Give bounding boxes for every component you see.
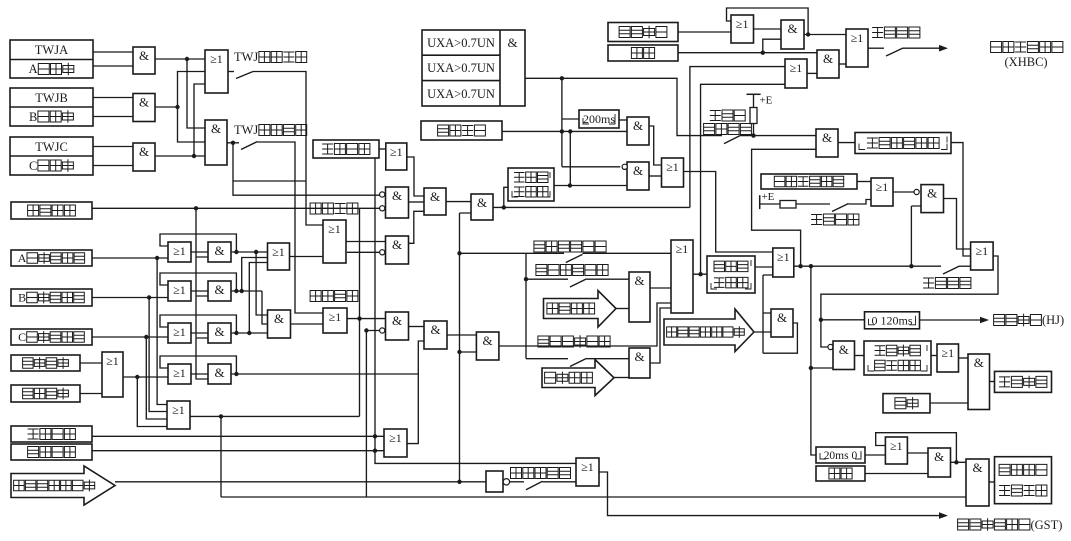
svg-text:≥1: ≥1 [666,160,679,174]
label +E side [762,191,775,203]
svg-text:&: & [214,365,224,380]
mode box 单重方式 [313,140,379,158]
label TWJ起动三重 [234,123,307,137]
svg-text:&: & [777,310,787,325]
svg-text:&: & [214,324,224,339]
svg-text:≥1: ≥1 [876,180,889,194]
delay box 后合延时定值 [855,133,951,154]
wire 单重方式 to G10 [379,148,386,150]
delay box 后合跳闸时间定值 [864,341,931,375]
label 投检同期方式 [538,335,610,347]
label 线路有压 [704,124,752,135]
wire G29 out to G28 [839,63,846,65]
svg-text:UXA>0.7UN: UXA>0.7UN [427,61,495,75]
label 后合固定 label [811,214,859,225]
wire G16 out to G18 [447,334,476,336]
wire 保护起动 to bubble2 [360,208,380,416]
or-gate G24 [662,158,684,187]
wire 无压 to G19 [587,278,630,280]
wire G37 out to G38 [959,357,969,359]
input box A相跳闸开入 [11,250,92,266]
svg-text:≥1: ≥1 [328,222,341,236]
svg-text:≥1: ≥1 [106,354,119,368]
wire G31 out [893,191,914,193]
junction J10 [234,250,238,254]
and-gate G18 三重与2 [476,332,499,360]
junction J25 [457,251,461,255]
wire G5-branch to NAND bubble1 [233,143,380,195]
switch SW-后合固定 [832,204,849,212]
svg-text:A: A [29,62,38,76]
switch SW-TWJ三重 [241,142,258,150]
junction J8 [135,375,139,379]
wire G25 feedback [727,8,809,35]
wire row1 out to G6/G7 [231,252,268,315]
wire G17cc out up to G16 [407,341,424,444]
or-gate R5 (any trip) [167,401,190,429]
or-gate G6 单相起动 [268,243,290,270]
wire checkmode vert [525,253,527,358]
wire G10 out to G13 top [407,157,424,196]
svg-text:≥1: ≥1 [676,242,689,256]
svg-text:≥1: ≥1 [851,31,864,45]
output arrowhead XHBC [939,45,948,52]
input box B相跳闸开入 [11,289,92,306]
wire G34 latch lower in [763,275,773,353]
input box TWJA / A相无流 [10,40,93,78]
delay box 20ms-0 [816,447,865,463]
label 未充电沟三 label [511,468,571,479]
not-gate N8 未充电 [486,471,503,492]
and-gate G22 电压200ms [627,117,649,145]
wire 200ms to G22 [619,119,627,121]
nand-gate G23 单重时间与 [627,162,649,190]
output arrowhead GST [939,512,948,519]
svg-text:&: & [507,35,517,50]
switch SW-先合投入(out) [886,48,903,56]
wire 合闸命令 to G25 [678,31,731,33]
junction J33 [806,32,810,36]
wire latch loop row 3 [160,315,236,333]
or-gate R0 (三跳) [102,352,123,397]
svg-text:C: C [18,330,26,344]
junction J9 [194,206,198,210]
and-gate G2 (TWJB) [133,94,155,122]
svg-text:≥1: ≥1 [390,145,403,159]
wire NOT out to switch [510,481,524,483]
wire G1 out to G4/G5 [155,59,205,128]
or-gate G27 合闸动作 [785,59,807,88]
wire 不检 to OR671 [583,252,672,254]
junction J35 [798,264,802,268]
or-gate R2 (B) [168,281,191,301]
wire mode vertical v375 [375,158,576,463]
inverter bubble N6 [914,189,919,194]
svg-text:B: B [29,110,37,124]
nand-gate G11 (blocking) [386,187,409,218]
delay box 单重时间定值 [508,168,554,201]
wire 未充电 to G42 [543,481,577,483]
wire 三重方式 line [92,450,384,452]
wire G3 out to G5/G4 [155,84,205,156]
and-gate S3 (C) [208,323,231,343]
and-gate G3 (TWJC) [133,143,155,171]
svg-text:&: & [139,144,149,159]
svg-text:TWJA: TWJA [35,43,68,57]
wire row4 out across [231,373,418,375]
or-gate G21 重合闸动作 [671,240,693,313]
junction J34 [751,133,755,137]
nand-gate G12 单重合闸 [386,236,409,264]
svg-text:≥1: ≥1 [581,460,594,474]
svg-text:+E: +E [762,191,775,203]
wire TWJ三重 switch to OR(323b) [258,142,324,313]
switch SW-TWJ单重 [236,72,253,79]
wire R4 to S4 [191,373,208,375]
junction J29 [560,129,564,133]
svg-text:≥1: ≥1 [777,250,790,264]
signal arrow 重合闸充电完成 input [11,466,115,505]
svg-text:&: & [274,311,284,326]
or-gate G33 先合投入 [971,242,994,270]
wire HJ out line [920,319,986,321]
svg-text:≥1: ≥1 [173,244,186,258]
wire G11 out to G13 [409,201,425,203]
wire G23 out to G24 [649,175,662,177]
wire 同期满足 to G20 [614,377,629,379]
junction J27 [698,272,702,276]
label 先合投入 top label [872,27,920,38]
svg-text:(XHBC): (XHBC) [1005,55,1048,69]
junction J24 [373,449,377,453]
wire G21 out [693,84,785,274]
inverter bubble N2 [380,206,385,211]
junction J39 [809,366,813,370]
wire 同期 to G20 [587,358,630,360]
wire 不检 line [460,252,565,254]
wire charge to G18 lower [460,351,477,353]
wire G9 out to G15 [347,318,386,320]
or-gate R4 (T) [168,364,191,384]
or-gate G8 起动单重 [323,220,346,263]
wire G5 out to switch [227,142,239,144]
wire XHBC out line [903,47,940,49]
wire R3 to S3 [191,332,208,334]
junction J36 [809,264,813,268]
svg-text:&: & [927,186,937,201]
and-gate G14 单重与2 [471,194,493,220]
or-gate G31 [871,178,893,206]
wire G20 out to OR671 [650,308,671,363]
wire row2 out to G6/G7 [231,258,268,325]
junction J32 [761,51,765,55]
and-gate G5 TWJ起动三重 [205,120,227,165]
wire G13 out to G14 [446,201,471,203]
wire 无压满足 to G19 [616,308,629,310]
wire G15 out to G16 [409,326,425,328]
junction J3 [192,154,196,158]
wire 综重方式 line [92,435,384,437]
svg-text:&: & [934,449,944,464]
or-gate G10 单重方式 [386,143,407,170]
input box 发电厂侧 [421,121,502,140]
wire branch to 0120ms [821,319,865,321]
or-gate G4 TWJ起动单重 [205,50,228,93]
wire 保护起动 line [92,208,360,379]
svg-text:UXA>0.7UN: UXA>0.7UN [427,36,495,50]
or-gate G39 [885,437,907,464]
junction J13 [240,289,244,293]
wire G7 to G9 [291,323,324,325]
junction J38 [819,318,823,322]
input box C相跳闸开入 [11,329,92,345]
svg-text:&: & [974,355,984,370]
wire 先合投入 to G33 [960,265,971,267]
svg-text:C: C [29,159,37,173]
wire G40 latch loop [876,433,957,463]
delay box 0-120ms [865,312,920,329]
svg-text:≥1: ≥1 [790,61,803,75]
input box TWJB / B相无流 [10,88,93,126]
wire 同期 line [526,358,568,360]
svg-text:&: & [787,21,797,36]
output box 后合跳闸 [995,371,1052,392]
junction J20 [364,328,368,332]
wire G18 out to OR671 [499,303,671,346]
signal arrow 无压满足 arrow [544,291,617,328]
wire G34 out 先合投入 line [794,265,941,267]
junction J12 [234,289,238,293]
input box 有流 [883,394,930,413]
label 重合闸充电完成 mid text [667,326,745,337]
input box 综重方式 [11,426,92,442]
wire G42 out GST line [599,472,940,516]
junction J30 [568,129,572,133]
wire UXA out line [525,78,722,135]
svg-text:200ms: 200ms [583,112,615,126]
and-gate G16 三重与 [424,321,447,349]
or-gate G28 先合闭锁 [846,29,868,67]
wire 有流 to G38 [930,402,968,404]
label 闭锁先合输出 [991,42,1063,53]
svg-text:≥1: ≥1 [173,283,186,297]
svg-text:TWJ: TWJ [234,123,258,137]
wire latch loop row 1 [160,234,236,252]
svg-text:UXA>0.7UN: UXA>0.7UN [427,87,495,101]
label 重合闸充电完成 text [14,480,95,492]
and-gate G20 同期 [629,348,650,378]
wire 单重方式 latch vert seg [374,436,376,450]
wire R2 to S2 [191,290,208,292]
junction J1 [185,57,189,61]
svg-text:&: & [214,243,224,258]
wire G14 out main [493,67,785,208]
junction J16 [234,372,238,376]
svg-text:TWJ: TWJ [234,50,258,64]
or-gate G34 重合出口 [773,248,794,277]
svg-text:A: A [18,251,27,265]
switch SW-先合投入 [943,266,960,274]
wire G26 out to G28 [804,34,846,36]
wire G8 tap to bubble3 [347,251,380,253]
inverter bubble N3 [380,250,385,255]
svg-text:TWJC: TWJC [35,140,68,154]
svg-text:&: & [430,189,440,204]
wire charge to G14 lower [460,213,472,482]
switch SW-不检 [566,254,583,262]
wire G39 out to G40 [907,452,928,454]
svg-text:≥1: ≥1 [329,310,342,324]
junction J6 [147,295,151,299]
input box 合闸命令 [608,23,678,42]
wire G25 out to G26 [754,28,782,30]
and-gate G26 [781,20,804,49]
inverter bubble N9 [503,479,509,485]
junction J4 [231,141,235,145]
wire charge line to NOT [115,481,486,483]
junction J31 [568,183,572,187]
junction J37 [909,264,913,268]
voltage check block UXA>0.7UN [422,30,525,106]
svg-text:B: B [18,291,26,305]
switch SW-同期 [570,358,587,366]
wire G28 out to switch [868,47,884,49]
wire G27 out to G29 [807,72,817,74]
wire row3 out to G7/G6 [231,263,268,334]
wire G12 out up to G13 [409,211,425,243]
svg-text:(HJ): (HJ) [1042,313,1064,327]
svg-text:&: & [392,313,402,328]
svg-text:0 120ms: 0 120ms [872,313,913,327]
and-gate G30 后合有压 [816,129,838,157]
svg-text:&: & [392,188,402,203]
and-gate S2 (B) [208,281,231,301]
label 沟三接点输出(GST) [958,518,1063,532]
switch SW-无压 [570,279,587,287]
wire 起动 line [678,39,817,53]
wire G6 to G8 [290,256,324,258]
wire R1 to S1 [191,251,208,253]
wire 后合延时 out [951,143,971,256]
nand-gate G15 三重合闸 [386,312,409,340]
label 起动单重 [310,203,358,214]
and-gate G41 放电 [966,459,989,506]
junction J40 [954,460,958,464]
wire 后合固定 to G31 [849,200,872,205]
bias resistor R2 (+E) [760,195,830,209]
wire 单重时间 to G23 [554,185,627,187]
wire G32 out to G33 [944,199,971,250]
wire 三重时间 to G34 [755,266,773,268]
and-gate G29 [817,50,839,78]
wire TWJA rows to G1 [93,52,133,66]
svg-text:≥1: ≥1 [736,17,749,31]
wire 起动2 to G40 [865,473,928,475]
svg-text:&: & [972,460,982,475]
svg-text:(GST): (GST) [1031,518,1063,532]
svg-text:≥1: ≥1 [172,403,185,417]
wire 后合跳闸时间 to G37 [931,355,937,357]
inverter bubble N4 [380,328,385,333]
svg-text:&: & [633,118,643,133]
wire long vert to 20ms and G36 [811,266,833,455]
svg-text:+E: +E [760,95,773,107]
svg-text:&: & [483,333,493,348]
wire 有压 line to G30 [741,135,817,137]
junction J11 [254,250,258,254]
svg-text:&: & [839,342,849,357]
wire 无压 line [526,278,568,280]
svg-text:&: & [477,195,487,210]
or-gate R1 (A) [168,242,191,262]
junction J28 [560,76,564,80]
wire G4 out to switch [228,71,234,73]
label 后合检 [710,110,745,121]
wire R5 out to v-band [190,416,360,497]
nand-gate G32 [921,185,944,213]
svg-text:&: & [430,322,440,337]
svg-text:≥1: ≥1 [942,346,955,360]
junction J21 [457,350,461,354]
wire TWJC rows to G3 [93,147,133,166]
wire UXA vert drop [562,78,620,167]
wire G8 out to G12 [346,241,386,243]
label 投检无压方式 [536,265,608,276]
input box TWJC / C相无流 [10,137,93,175]
input box 线路三跳 [11,385,80,402]
wire any-trip long line [221,496,966,498]
input box 发变三跳 [11,355,80,371]
svg-text:&: & [823,51,833,66]
and-gate G35 重合latch [771,309,793,337]
and-gate G13 单重与 [424,188,446,215]
svg-text:≥1: ≥1 [173,325,186,339]
signal arrow 重合闸充电完成 mid [664,309,754,352]
svg-text:&: & [822,130,832,145]
and-gate G38 [968,354,990,410]
svg-text:≥1: ≥1 [210,52,223,66]
output box 合于故障后合放电 [995,457,1052,504]
and-gate S4 (T) [208,364,231,384]
junction J41 [457,480,461,484]
svg-text:&: & [214,282,224,297]
svg-text:≥1: ≥1 [173,366,186,380]
and-gate G36 后合跳闸与 [833,341,855,370]
or-gate G9 起动三重 [323,308,347,333]
wire B相跳闸开入 line [92,298,168,412]
wire G35 latch loop [763,313,797,353]
wire charge arrow to G35 [754,331,771,333]
svg-text:&: & [634,273,644,288]
svg-text:&: & [211,121,221,136]
wire TWJB rows to G2 [93,98,133,117]
label 先合投入 switch label [923,278,971,289]
inverter bubble N5 [622,164,627,169]
switch SW-未充电沟三 [526,481,543,489]
label (XHBC) [1005,55,1048,69]
wire G22 out to G24 [649,126,662,165]
wire G40 out to G41 [951,461,967,463]
junction J2 [175,105,179,109]
input box 闭锁先合开入 [761,174,857,189]
svg-text:&: & [633,163,643,178]
and-gate G7 三相起动 [268,310,291,338]
or-gate G25 [731,15,754,43]
svg-text:&: & [139,48,149,63]
junction J15 [247,331,251,335]
junction J23 [373,434,377,438]
wire G32 lower in [911,206,921,266]
